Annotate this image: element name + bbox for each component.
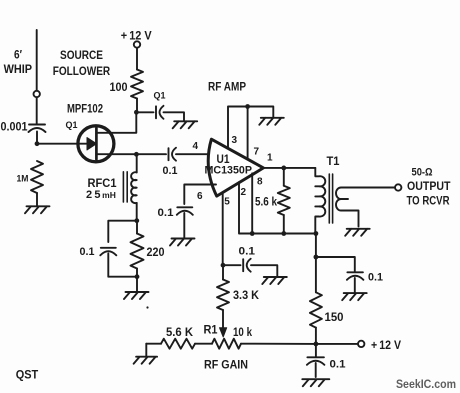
- svg-text:1: 1: [267, 153, 273, 164]
- svg-text:SOURCE: SOURCE: [60, 50, 103, 62]
- node +12V junction: [314, 342, 319, 347]
- wire: [37, 143, 88, 145]
- svg-text:0.001: 0.001: [1, 122, 29, 134]
- svg-text:5.6 K: 5.6 K: [166, 327, 194, 339]
- potentiometer wiper arrow: [220, 328, 227, 337]
- transformer T1 core: [329, 174, 332, 223]
- svg-text:5: 5: [224, 197, 230, 208]
- wire: [146, 343, 161, 345]
- wire pin7: [247, 107, 249, 159]
- capacitor 0.1 input: [168, 148, 170, 160]
- ground: [134, 357, 158, 364]
- wire: [315, 257, 317, 292]
- wire: [136, 277, 138, 292]
- wire: [136, 99, 138, 113]
- svg-text:0.1: 0.1: [239, 246, 256, 258]
- svg-text:50-Ω: 50-Ω: [412, 167, 433, 179]
- transistor Q1 gate arrow: [87, 138, 97, 151]
- ground: [124, 292, 149, 299]
- svg-text:2: 2: [241, 187, 247, 198]
- wire: [315, 234, 317, 258]
- svg-text:4: 4: [193, 141, 199, 152]
- capacitor 0.1 pin5: [242, 259, 244, 271]
- svg-text:MC1350P: MC1350P: [205, 165, 253, 177]
- svg-text:10 k: 10 k: [233, 327, 253, 339]
- svg-text:0.1: 0.1: [163, 165, 178, 177]
- wire: [316, 257, 355, 271]
- ground: [259, 118, 284, 125]
- svg-text:Q1: Q1: [66, 120, 79, 131]
- wire: [164, 112, 185, 121]
- transistor Q1 body: [78, 126, 114, 162]
- svg-text:8: 8: [257, 177, 263, 188]
- svg-text:3: 3: [232, 135, 238, 146]
- resistor 220: [131, 234, 144, 269]
- wire: [251, 265, 277, 277]
- svg-text:SeekIC.com: SeekIC.com: [396, 379, 456, 391]
- inductor RFC1 core: [123, 172, 127, 202]
- svg-text:1M: 1M: [17, 174, 29, 185]
- node drain junction: [134, 110, 139, 115]
- ground: [342, 293, 367, 300]
- wire pin8: [251, 173, 253, 233]
- wire pin6: [184, 185, 216, 205]
- svg-text:0.1: 0.1: [330, 359, 346, 371]
- node 220 bottom junction: [135, 274, 140, 279]
- wire: [36, 193, 38, 206]
- wire pin2 bus: [239, 182, 316, 233]
- wire: [136, 153, 166, 155]
- svg-text:0.1: 0.1: [368, 272, 383, 284]
- wire: [315, 344, 317, 357]
- wire: [223, 265, 241, 279]
- svg-text:Q1: Q1: [154, 91, 167, 102]
- node gate junction: [35, 141, 40, 146]
- svg-text:MPF102: MPF102: [67, 104, 103, 116]
- svg-text:QST: QST: [16, 368, 39, 382]
- svg-text:+ 12 V: + 12 V: [121, 31, 152, 43]
- svg-text:2 5 mH: 2 5 mH: [86, 189, 116, 201]
- svg-text:0.1: 0.1: [80, 246, 95, 258]
- wire: [248, 107, 274, 118]
- capacitor 0.1 pin6: [177, 206, 192, 208]
- node junction: [314, 255, 319, 260]
- node bus T1 junction: [314, 231, 319, 236]
- IC U1 MC1350P body: [208, 139, 263, 196]
- resistor 3.3K: [217, 280, 229, 311]
- capacitor 0.1 right: [347, 271, 363, 273]
- wire: [36, 132, 38, 144]
- resistor 150: [310, 292, 322, 327]
- wire: [145, 344, 147, 357]
- wire: [183, 213, 185, 239]
- svg-text:RF GAIN: RF GAIN: [204, 360, 248, 372]
- ground: [345, 229, 370, 236]
- svg-text:6′: 6′: [14, 50, 22, 62]
- node source junction: [134, 152, 139, 157]
- wire: [136, 221, 138, 277]
- wire pin1: [263, 167, 315, 169]
- wire drain lead: [96, 112, 136, 133]
- capacitor 0.1 bypass: [101, 247, 116, 249]
- svg-text:100: 100: [110, 82, 128, 94]
- capacitor C 0.001: [29, 124, 45, 126]
- resistor 5.6k: [278, 186, 290, 215]
- ink speck: [146, 306, 148, 308]
- wire: [136, 111, 153, 113]
- wire: [136, 48, 138, 70]
- node pin1 junction: [281, 166, 286, 171]
- ground: [170, 239, 195, 246]
- wire source lead: [96, 153, 136, 155]
- svg-text:WHIP: WHIP: [4, 64, 33, 76]
- svg-text:6: 6: [197, 191, 203, 202]
- ground: [173, 121, 198, 128]
- svg-text:150: 150: [325, 312, 344, 324]
- output terminal: [395, 184, 401, 190]
- svg-text:TO RCVR: TO RCVR: [407, 196, 451, 208]
- antenna terminal: [34, 91, 40, 97]
- power +12V right terminal: [358, 341, 364, 347]
- resistor 5.6K: [161, 339, 195, 349]
- wire: [283, 168, 285, 234]
- svg-text:3.3 K: 3.3 K: [233, 290, 260, 302]
- wire: [241, 343, 316, 345]
- wire: [136, 154, 138, 172]
- svg-text:FOLLOWER: FOLLOWER: [53, 66, 111, 78]
- svg-text:RF AMP: RF AMP: [208, 82, 246, 94]
- wire: [36, 97, 38, 123]
- svg-text:OUTPUT: OUTPUT: [407, 181, 451, 193]
- inductor RFC1 winding: [131, 172, 137, 203]
- svg-text:+ 12 V: + 12 V: [371, 340, 401, 352]
- potentiometer R1 10k: [212, 339, 241, 349]
- resistor 1M: [31, 161, 43, 193]
- wire wiper: [222, 310, 224, 329]
- node pin5 junction: [221, 263, 226, 268]
- node RFC1 bottom junction: [134, 218, 139, 223]
- svg-text:R1: R1: [204, 325, 219, 337]
- transistor Q1 channel bar: [95, 128, 98, 159]
- transformer T1 primary: [315, 168, 325, 234]
- wire pin4: [176, 153, 211, 155]
- node pin7 junction: [245, 104, 250, 109]
- ground: [262, 277, 287, 284]
- svg-text:T1: T1: [327, 156, 341, 168]
- resistor 100: [131, 70, 143, 99]
- wire output: [359, 187, 396, 189]
- wire: [108, 221, 137, 242]
- wire: [316, 343, 358, 345]
- wire: [354, 278, 356, 293]
- svg-text:5.6 k: 5.6 k: [255, 197, 278, 209]
- svg-text:0.1: 0.1: [158, 207, 174, 219]
- wire: [195, 343, 212, 345]
- ground: [25, 206, 50, 213]
- node bus 5.6k junction: [281, 231, 286, 236]
- ground: [302, 379, 329, 386]
- power +12V terminal: [134, 41, 140, 47]
- wire: [108, 254, 137, 277]
- wire pin3: [228, 107, 248, 149]
- wire: [315, 363, 317, 377]
- wire: [136, 203, 138, 221]
- svg-text:220: 220: [147, 247, 165, 259]
- node bus pin8 junction: [250, 231, 255, 236]
- capacitor 0.1 bottom: [307, 356, 324, 358]
- node antenna input wire: [36, 30, 38, 91]
- capacitor Q1 coupling: [155, 106, 157, 118]
- wire pin5: [222, 192, 224, 265]
- wire: [315, 328, 317, 344]
- transformer T1 secondary: [336, 188, 358, 227]
- svg-text:7: 7: [254, 147, 260, 158]
